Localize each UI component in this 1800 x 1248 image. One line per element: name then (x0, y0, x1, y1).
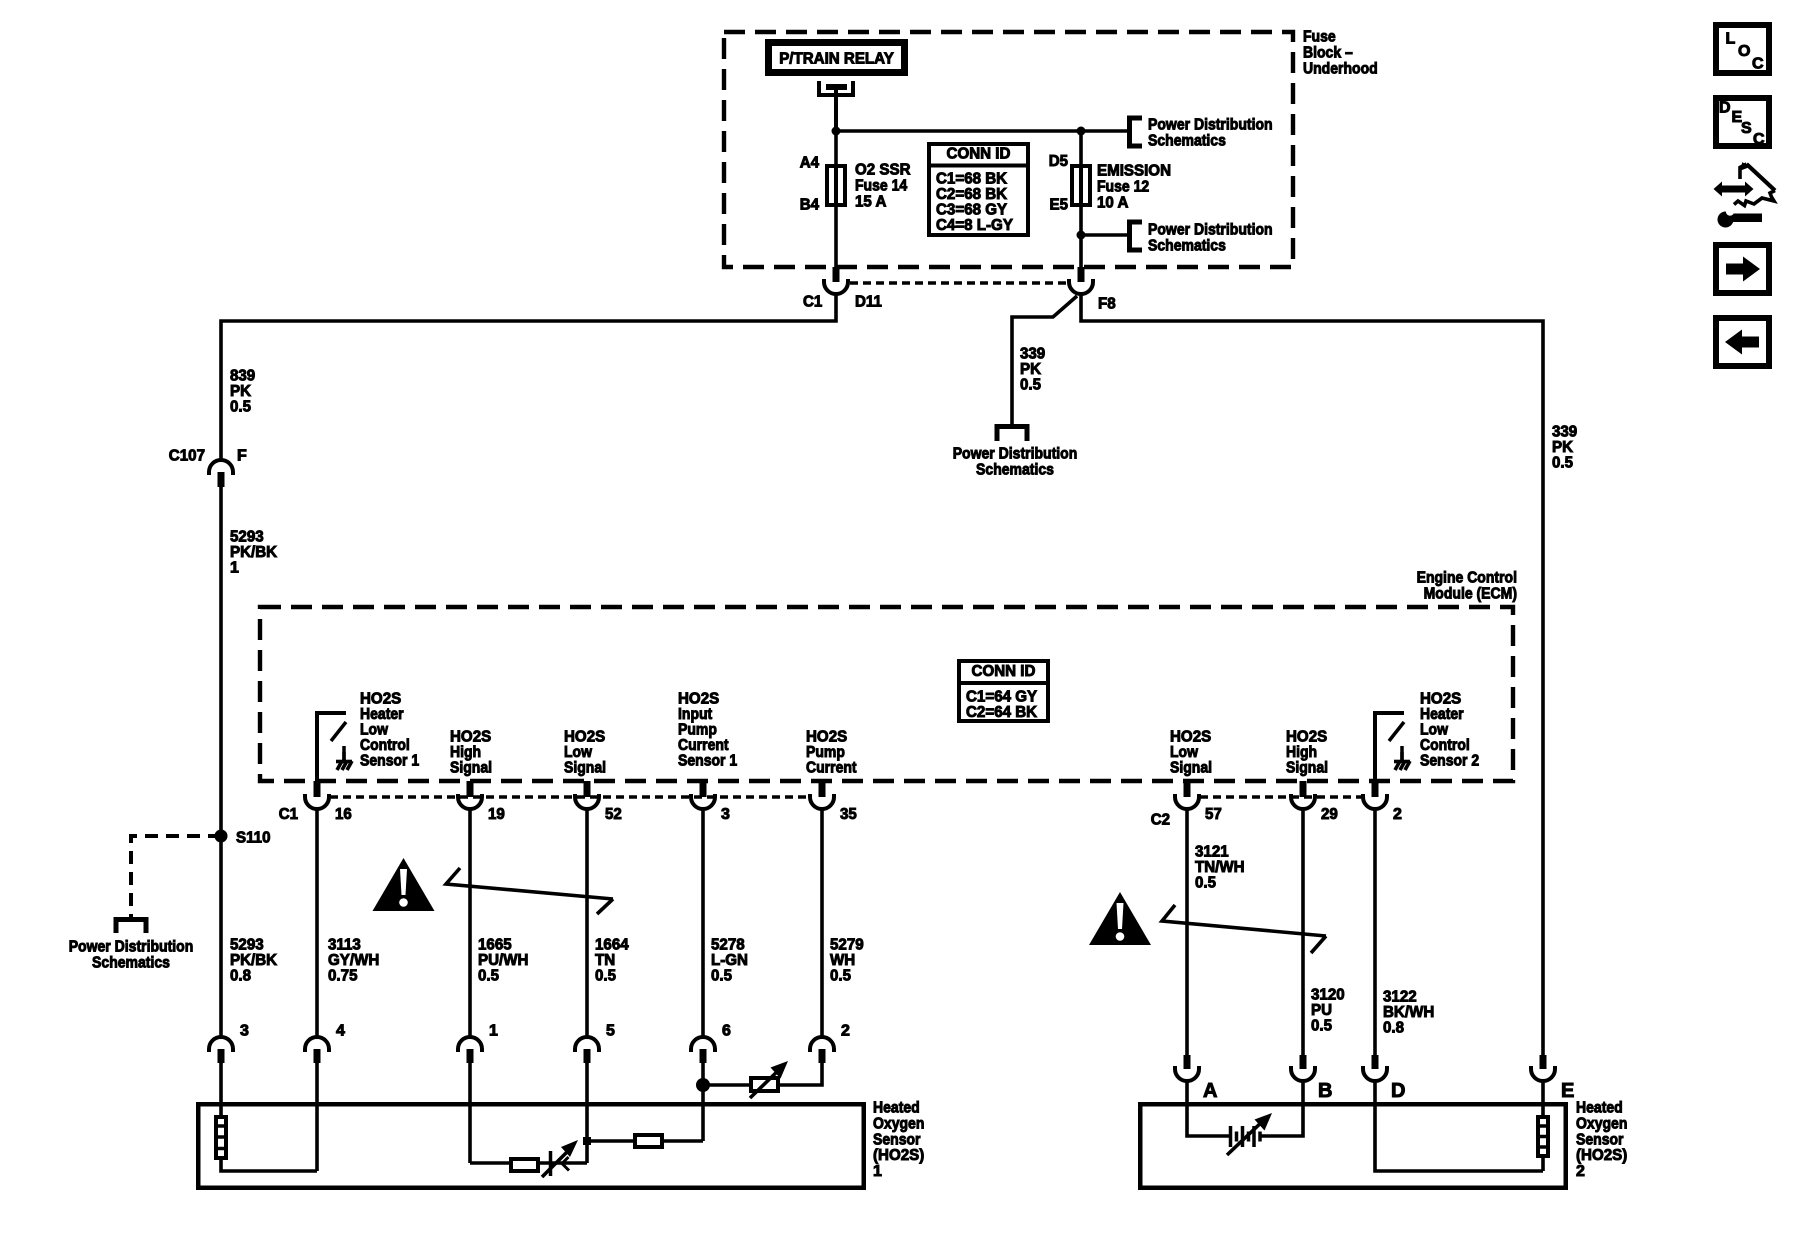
svg-text:C1: C1 (279, 806, 298, 823)
svg-text:Fuse: Fuse (1303, 29, 1336, 46)
sensor 1 connector pin 3 (male) (218, 1049, 225, 1063)
label S110 (236, 830, 271, 847)
svg-text:Fuse 14: Fuse 14 (855, 178, 907, 195)
fuse block - underhood (dashed enclosure) (724, 32, 1293, 267)
wire C1-D11 down and left to C107 (221, 294, 836, 460)
connector pin 29 (male) (1300, 781, 1307, 797)
svg-text:Power Distribution: Power Distribution (953, 446, 1078, 463)
svg-text:0.5: 0.5 (1552, 455, 1573, 472)
svg-text:HO2S: HO2S (1170, 729, 1212, 746)
svg-text:4: 4 (336, 1023, 345, 1040)
svg-text:C3=68 GY: C3=68 GY (936, 202, 1007, 219)
wire fuse EMISSION down to connector (1079, 205, 1083, 268)
pump cell resistor (sensor 1) (587, 1135, 703, 1147)
connector pin C1-D11 (male) (833, 267, 840, 282)
connector pin 2 (male) (1372, 781, 1379, 797)
Heated Oxygen Sensor (HO2S) 2 (box) (1140, 1104, 1566, 1188)
pin letter label D (1391, 1080, 1405, 1102)
heater element (sensor 2) (1536, 1117, 1550, 1156)
label HO2S Heater Low Control Sensor 2 (1420, 691, 1479, 770)
connector C107 arc (female) (209, 460, 233, 475)
svg-text:2: 2 (1393, 806, 1402, 823)
svg-text:C2=68 BK: C2=68 BK (936, 186, 1008, 203)
svg-text:Heated: Heated (873, 1100, 920, 1117)
connector row dotted line C2 (ECM) (1200, 795, 1362, 799)
icon back arrow (1716, 318, 1769, 366)
wire F8 down and right to sensor 2 pin E (1081, 294, 1543, 1055)
svg-text:HO2S: HO2S (1286, 729, 1328, 746)
ground (sensor 2 driver) (1400, 752, 1404, 762)
label HO2S Input Pump Current Sensor 1 (678, 691, 737, 770)
wire heater to pin D line (sensor 2 internal) (1541, 1156, 1545, 1171)
svg-text:0.5: 0.5 (830, 968, 851, 985)
pin label E5 (1050, 197, 1069, 214)
wire 5278 L-GN (pin 3 to pin 6) (701, 809, 705, 1037)
svg-text:Power Distribution: Power Distribution (1148, 117, 1273, 134)
label HO2S Heater Low Control Sensor 1 (360, 691, 419, 770)
svg-text:Sensor: Sensor (1576, 1131, 1624, 1148)
connector cup pin 52 (female) (575, 794, 599, 809)
svg-text:Sensor 1: Sensor 1 (360, 752, 419, 769)
wire heater to pin 4 (sensor 1 internal) (221, 1158, 317, 1171)
pin number label 5 (sensor 1) (606, 1023, 615, 1040)
svg-text:A4: A4 (800, 155, 819, 172)
wire pin 4 into sensor 1 (315, 1063, 319, 1171)
pin number label 3 (721, 806, 730, 823)
off-page bracket Power Distribution (left) (116, 920, 146, 934)
pin letter label E (1561, 1080, 1574, 1102)
svg-text:3: 3 (721, 806, 730, 823)
connector cup pin 2 (female) (1363, 794, 1387, 809)
icon connector tool (double arrow, outline, wrench) (1714, 162, 1776, 228)
svg-text:0.5: 0.5 (478, 968, 499, 985)
nernst cell resistor (sensor 1) (470, 1140, 587, 1177)
svg-text:339: 339 (1020, 346, 1045, 363)
sensor 1 connector arc pin 3 (female) (209, 1037, 233, 1052)
wire branch to lower PDS bracket (1081, 233, 1129, 237)
svg-text:WH: WH (830, 952, 855, 969)
svg-text:D: D (1391, 1080, 1405, 1102)
label 5293 PK/BK 0.8 (230, 937, 278, 985)
svg-text:CONN ID: CONN ID (947, 146, 1011, 163)
CONN ID table (underhood) (929, 144, 1028, 235)
label HO2S High Signal (right) (1286, 729, 1328, 777)
label 339 PK 0.5 (middle) (1020, 346, 1045, 394)
pin number label 29 (1321, 806, 1338, 823)
svg-text:0.5: 0.5 (595, 968, 616, 985)
svg-text:5278: 5278 (711, 937, 745, 954)
label O2 SSR Fuse 14 15 A (855, 162, 911, 211)
label 1664 TN 0.5 (595, 937, 629, 985)
label 5293 PK/BK 1 (230, 529, 278, 577)
pin number label 16 (335, 806, 352, 823)
wire 3120 PU (pin 29 to pin B) (1301, 809, 1305, 1055)
CONN ID table (ECM) (959, 661, 1048, 721)
callout arrow (sensor 2 note) (1162, 905, 1326, 953)
svg-text:E: E (1561, 1080, 1574, 1102)
wire into fuse O2 SSR (834, 131, 838, 167)
svg-text:Underhood: Underhood (1303, 61, 1378, 78)
svg-text:(HO2S): (HO2S) (873, 1147, 924, 1164)
svg-text:PU/WH: PU/WH (478, 952, 528, 969)
pin number label 2 (sensor 1) (841, 1023, 850, 1040)
svg-text:29: 29 (1321, 806, 1338, 823)
svg-text:Signal: Signal (1170, 760, 1212, 777)
svg-text:E5: E5 (1050, 197, 1069, 214)
connector pin 35 (male) (819, 781, 826, 797)
sensor cell battery symbol (sensor 2) (1227, 1113, 1272, 1155)
svg-text:0.5: 0.5 (230, 399, 251, 416)
ground (sensor 1 driver) (342, 752, 346, 762)
sensor 2 connector cup D (female) (1363, 1066, 1387, 1081)
svg-text:D11: D11 (855, 294, 882, 311)
svg-text:High: High (1286, 744, 1317, 761)
connector pin 16 (male) (314, 781, 321, 797)
svg-text:PK: PK (1020, 361, 1041, 378)
svg-text:0.8: 0.8 (230, 968, 251, 985)
sensor 1 connector arc pin 5 (female) (575, 1037, 599, 1052)
driver switch HO2S heater low control sensor 2 (internal) (1373, 713, 1410, 783)
wire 3113 GY/WH (pin 16 to pin 4) (315, 809, 319, 1037)
fuse F12 EMISSION 10A (1072, 166, 1090, 206)
svg-text:PK: PK (1552, 439, 1573, 456)
connector pin 19 (male) (467, 781, 474, 797)
label C2 (ECM connector) (1151, 812, 1170, 829)
pin number label 2 (1393, 806, 1402, 823)
variable resistor (pump current trim) (703, 1061, 788, 1098)
connector cup pin 16 (female) (305, 794, 329, 809)
heater element (sensor 1) (214, 1117, 228, 1158)
connector cup pin 19 (female) (458, 794, 482, 809)
junction dot (pump current branch) (696, 1078, 710, 1092)
sensor 1 connector arc pin 1 (female) (458, 1037, 482, 1052)
label HO2S Low Signal (left) (564, 729, 606, 777)
label Heated Oxygen Sensor (HO2S) 1 (873, 1100, 924, 1180)
svg-text:3121: 3121 (1195, 844, 1229, 861)
junction square (sensor 1 cell) (583, 1137, 591, 1145)
svg-text:1: 1 (873, 1163, 882, 1180)
wire 1665 PU/WH (pin 19 to pin 1) (468, 809, 472, 1037)
pin label D5 (1049, 153, 1068, 170)
svg-text:EMISSION: EMISSION (1097, 163, 1171, 180)
svg-text:HO2S: HO2S (806, 729, 848, 746)
label F8 (1098, 296, 1116, 313)
pin label B4 (800, 197, 819, 214)
wire relay output down to bus (834, 87, 838, 133)
svg-text:Power Distribution: Power Distribution (1148, 222, 1273, 239)
svg-text:6: 6 (722, 1023, 731, 1040)
wire dashed branch to PDS (left) (131, 836, 221, 919)
svg-text:PK/BK: PK/BK (230, 544, 278, 561)
svg-text:CONN ID: CONN ID (972, 663, 1036, 680)
wire 3122 BK/WH (pin 2 to pin D) (1373, 809, 1377, 1055)
label Fuse Block - Underhood (1303, 29, 1378, 78)
junction at emission fuse top (1077, 127, 1086, 136)
svg-text:Low: Low (1170, 744, 1198, 761)
icon LOC (1716, 25, 1769, 73)
pin number label 3 (sensor 1) (240, 1023, 249, 1040)
svg-text:F8: F8 (1098, 296, 1116, 313)
wire 1664 TN (pin 52 to pin 5) (585, 809, 589, 1037)
svg-text:3122: 3122 (1383, 989, 1417, 1006)
label 3121 TN/WH 0.5 (1195, 844, 1245, 892)
wire fuse O2 SSR down to connector (834, 205, 838, 268)
svg-text:1664: 1664 (595, 937, 629, 954)
Engine Control Module ECM (dashed enclosure) (260, 607, 1513, 781)
connector C107 pin (male) (218, 472, 225, 487)
pin letter label A (1203, 1080, 1217, 1102)
sensor 1 connector pin 6 (male) (700, 1049, 707, 1063)
svg-text:Signal: Signal (564, 760, 606, 777)
wire pin A into sensor 2 (1187, 1081, 1230, 1136)
off-page bracket Power Distribution (middle) (997, 427, 1027, 442)
svg-text:5279: 5279 (830, 937, 864, 954)
wire pin 3 into sensor 1 (219, 1063, 223, 1117)
wire 3121 TN/WH (pin 57 to pin A) (1185, 809, 1189, 1055)
warning triangle (sensor 1 note) (373, 858, 435, 911)
svg-text:0.8: 0.8 (1383, 1020, 1404, 1037)
svg-text:D: D (1719, 100, 1731, 117)
wire pin E to heater (sensor 2) (1541, 1081, 1545, 1117)
connector cup pin 57 (female) (1175, 794, 1199, 809)
svg-text:Block –: Block – (1303, 45, 1353, 62)
wire pin 6 into sensor 1 (701, 1085, 705, 1141)
svg-text:1: 1 (230, 560, 239, 577)
svg-text:Signal: Signal (450, 760, 492, 777)
wire 5279 WH (pin 35 to pin 2) (820, 809, 824, 1037)
label Power Distribution Schematics (left) (69, 939, 194, 972)
svg-text:Low: Low (564, 744, 592, 761)
svg-text:O2 SSR: O2 SSR (855, 162, 911, 179)
svg-text:0.5: 0.5 (1195, 875, 1216, 892)
wire battery to pin B (sensor 2 internal) (1261, 1081, 1303, 1136)
svg-text:5293: 5293 (230, 937, 264, 954)
relay K1 P/TRAIN RELAY (labelled box) (765, 39, 908, 76)
sensor 1 connector pin 5 (male) (584, 1049, 591, 1063)
svg-text:C2=64 BK: C2=64 BK (966, 704, 1038, 721)
svg-text:D5: D5 (1049, 153, 1068, 170)
svg-text:35: 35 (840, 806, 857, 823)
label HO2S High Signal (left) (450, 729, 492, 777)
svg-text:Heated: Heated (1576, 1100, 1623, 1117)
svg-text:Power Distribution: Power Distribution (69, 939, 194, 956)
sensor 1 connector pin 4 (male) (314, 1049, 321, 1063)
label 3120 PU 0.5 (1311, 987, 1345, 1035)
pin number label 57 (1205, 806, 1222, 823)
svg-text:Sensor 1: Sensor 1 (678, 752, 737, 769)
svg-text:15 A: 15 A (855, 193, 887, 210)
svg-text:High: High (450, 744, 481, 761)
svg-text:Oxygen: Oxygen (873, 1116, 924, 1133)
sensor 2 connector pin E (male) (1540, 1055, 1547, 1069)
connector row dotted line C1 (ECM) (330, 795, 809, 799)
svg-text:0.75: 0.75 (328, 968, 358, 985)
sensor 2 connector cup E (female) (1531, 1066, 1555, 1081)
connector pin 57 (male) (1184, 781, 1191, 797)
svg-text:Module (ECM): Module (ECM) (1424, 586, 1517, 603)
svg-text:0.5: 0.5 (1311, 1018, 1332, 1035)
svg-text:A: A (1203, 1080, 1217, 1102)
svg-text:19: 19 (488, 806, 505, 823)
label 5279 WH 0.5 (830, 937, 864, 985)
connector cup pin 35 (female) (810, 794, 834, 809)
sensor 1 connector pin 2 (male) (819, 1049, 826, 1063)
svg-text:PK: PK (230, 383, 251, 400)
wire diagonal from F8 to 339 drop (1012, 296, 1077, 427)
relay contact pin symbol (819, 81, 853, 95)
svg-text:0.5: 0.5 (711, 968, 732, 985)
label F (237, 448, 247, 465)
wire pin D into sensor 2 (1375, 1081, 1543, 1171)
svg-text:16: 16 (335, 806, 352, 823)
svg-text:3120: 3120 (1311, 987, 1345, 1004)
splice S110 (215, 830, 228, 843)
label D11 (855, 294, 882, 311)
pin number label 19 (488, 806, 505, 823)
pin number label 35 (840, 806, 857, 823)
svg-text:C1: C1 (803, 294, 822, 311)
svg-text:L-GN: L-GN (711, 952, 748, 969)
svg-text:BK/WH: BK/WH (1383, 1004, 1434, 1021)
connector pin 52 (male) (584, 781, 591, 797)
label EMISSION Fuse 12 10 A (1097, 163, 1171, 212)
svg-text:57: 57 (1205, 806, 1222, 823)
svg-text:S110: S110 (236, 830, 271, 847)
svg-text:2: 2 (1576, 1163, 1585, 1180)
svg-text:52: 52 (605, 806, 622, 823)
svg-text:0.5: 0.5 (1020, 377, 1041, 394)
svg-text:B4: B4 (800, 197, 819, 214)
svg-text:2: 2 (841, 1023, 850, 1040)
svg-text:C1=64 GY: C1=64 GY (966, 689, 1037, 706)
label 5278 L-GN 0.5 (711, 937, 748, 985)
sensor 2 connector pin A (male) (1184, 1055, 1191, 1069)
svg-text:5293: 5293 (230, 529, 264, 546)
sensor 1 connector arc pin 4 (female) (305, 1037, 329, 1052)
off-page bracket to Power Distribution (lower) (1130, 222, 1143, 250)
connector cup F8 (female) (1069, 279, 1093, 294)
sensor 1 connector arc pin 2 (female) (810, 1037, 834, 1052)
pin number label 52 (605, 806, 622, 823)
wire pin 2 down to pump trim resistor (780, 1063, 822, 1085)
sensor 1 connector arc pin 6 (female) (691, 1037, 715, 1052)
pin label A4 (800, 155, 819, 172)
svg-text:(HO2S): (HO2S) (1576, 1147, 1627, 1164)
svg-text:1665: 1665 (478, 937, 512, 954)
label C107 (169, 448, 205, 465)
connector cup C1-D11 (female) (824, 279, 848, 294)
svg-text:Signal: Signal (1286, 760, 1328, 777)
label 3122 BK/WH 0.8 (1383, 989, 1434, 1037)
wire top feed bus (836, 129, 1129, 133)
svg-text:Current: Current (806, 760, 857, 777)
svg-text:5: 5 (606, 1023, 615, 1040)
svg-text:C: C (1753, 131, 1765, 148)
pin number label 4 (sensor 1) (336, 1023, 345, 1040)
pin number label 1 (sensor 1) (489, 1023, 498, 1040)
connector pin 3 (male) (700, 781, 707, 797)
svg-text:B: B (1318, 1080, 1332, 1102)
svg-text:Sensor: Sensor (873, 1131, 921, 1148)
svg-text:PK/BK: PK/BK (230, 952, 278, 969)
svg-text:Engine Control: Engine Control (1417, 570, 1517, 587)
connector cup pin 3 (female) (691, 794, 715, 809)
svg-text:C1=68 BK: C1=68 BK (936, 171, 1008, 188)
wire emission fuse drop (1079, 131, 1083, 167)
junction at relay wire (832, 127, 841, 136)
pin letter label B (1318, 1080, 1332, 1102)
svg-text:PU: PU (1311, 1002, 1332, 1019)
wire pin 1 into sensor 1 (468, 1063, 472, 1163)
svg-text:Schematics: Schematics (976, 462, 1054, 479)
label HO2S Low Signal (right) (1170, 729, 1212, 777)
label HO2S Pump Current (806, 729, 857, 777)
svg-text:C107: C107 (169, 448, 205, 465)
driver switch HO2S heater low control sensor 1 (internal) (315, 713, 352, 783)
svg-text:GY/WH: GY/WH (328, 952, 379, 969)
svg-text:339: 339 (1552, 424, 1577, 441)
connector pin F8 (male) (1078, 267, 1085, 282)
wire riser to pin 5 junction (585, 1139, 589, 1163)
svg-text:F: F (237, 448, 247, 465)
label Power Distribution Schematics (upper) (1148, 117, 1273, 150)
warning triangle (sensor 2 note) (1089, 892, 1151, 945)
label 839 PK 0.5 (230, 368, 255, 416)
wire pin 5 into sensor 1 (585, 1063, 589, 1141)
sensor 2 connector cup A (female) (1175, 1066, 1199, 1081)
icon forward arrow (1716, 245, 1769, 293)
label 1665 PU/WH 0.5 (478, 937, 528, 985)
svg-text:839: 839 (230, 368, 255, 385)
label C1 (803, 294, 822, 311)
label 339 PK 0.5 (right) (1552, 424, 1577, 472)
svg-text:C: C (1752, 56, 1764, 73)
svg-text:S: S (1741, 120, 1752, 137)
fuse F14 O2 SSR 15A (827, 166, 845, 206)
off-page bracket to Power Distribution (upper) (1130, 118, 1143, 146)
label 3113 GY/WH 0.75 (328, 937, 379, 985)
svg-text:C4=8 L-GY: C4=8 L-GY (936, 217, 1013, 234)
svg-text:TN: TN (595, 952, 615, 969)
svg-text:3: 3 (240, 1023, 249, 1040)
svg-text:HO2S: HO2S (450, 729, 492, 746)
Heated Oxygen Sensor (HO2S) 1 (box) (198, 1104, 864, 1188)
wire S110 down to sensor pin 3 (219, 836, 223, 1037)
sensor 1 connector pin 1 (male) (467, 1049, 474, 1063)
svg-text:3113: 3113 (328, 937, 361, 954)
svg-text:Sensor 2: Sensor 2 (1420, 752, 1479, 769)
svg-text:Schematics: Schematics (92, 955, 170, 972)
sensor 2 connector pin B (male) (1300, 1055, 1307, 1069)
svg-text:Pump: Pump (806, 744, 845, 761)
label Heated Oxygen Sensor (HO2S) 2 (1576, 1100, 1627, 1180)
connector cup pin 29 (female) (1291, 794, 1315, 809)
svg-text:10 A: 10 A (1097, 194, 1129, 211)
svg-text:L: L (1726, 31, 1736, 48)
svg-text:HO2S: HO2S (564, 729, 606, 746)
pin number label 6 (sensor 1) (722, 1023, 731, 1040)
label Engine Control Module (ECM) (1417, 570, 1517, 603)
svg-text:O: O (1738, 43, 1750, 60)
wire pin 6 to junction (701, 1063, 705, 1085)
svg-text:Oxygen: Oxygen (1576, 1116, 1627, 1133)
label Power Distribution Schematics (lower) (1148, 222, 1273, 255)
svg-text:P/TRAIN RELAY: P/TRAIN RELAY (779, 51, 894, 68)
svg-text:C2: C2 (1151, 812, 1170, 829)
svg-text:Fuse 12: Fuse 12 (1097, 179, 1149, 196)
label C1 (ECM connector) (279, 806, 298, 823)
svg-text:Schematics: Schematics (1148, 238, 1226, 255)
